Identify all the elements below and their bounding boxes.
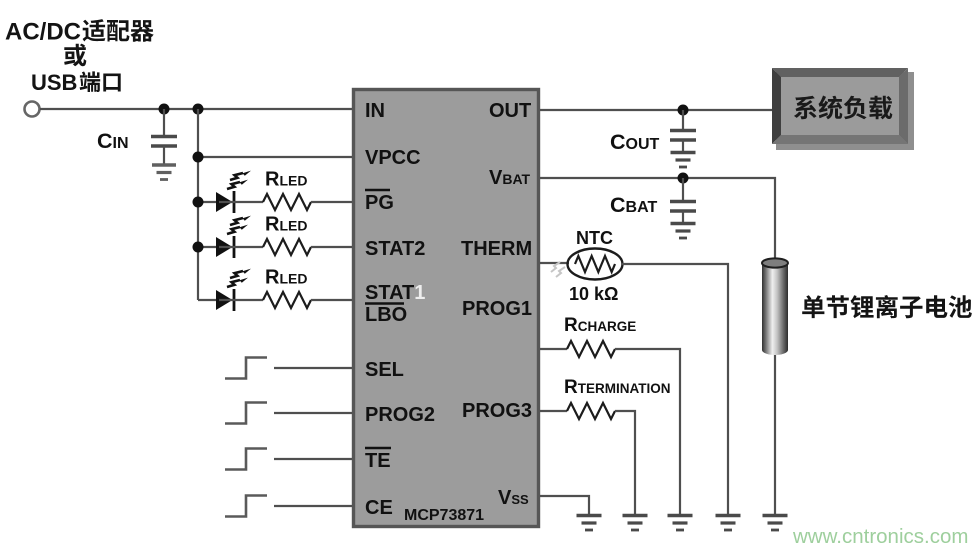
faint artifact arrows near NTC: [551, 262, 565, 277]
wire: PG LED branch: [198, 201, 216, 203]
ground (CBAT): [671, 224, 696, 239]
junction: COUT tap: [678, 105, 689, 116]
svg-text:www.cntronics.com: www.cntronics.com: [792, 525, 968, 548]
junction: VPCC: [193, 152, 204, 163]
resistor RTERMINATION: [567, 403, 615, 419]
svg-text:RLED: RLED: [265, 214, 307, 236]
svg-text:STAT1: STAT1: [365, 282, 425, 304]
wire: VBAT to battery: [540, 178, 775, 259]
junction: CBAT tap: [678, 173, 689, 184]
pin label LBO (active low): [365, 304, 407, 327]
wire: VSS to ground: [540, 496, 589, 514]
thermistor NTC zigzag: [575, 256, 615, 272]
signal step input (CE): [225, 496, 267, 517]
junction: LED bus tap: [193, 104, 204, 115]
ground (battery): [763, 516, 788, 531]
wire: PROG3 to RTERMINATION: [540, 410, 567, 412]
svg-text:LBO: LBO: [365, 304, 407, 326]
resistor RLED (STAT1): [263, 292, 311, 308]
svg-text:VBAT: VBAT: [489, 167, 531, 189]
svg-text:STAT2: STAT2: [365, 238, 425, 260]
signal step input (SEL): [225, 358, 267, 379]
svg-text:USB: USB: [31, 70, 77, 95]
label: or (或): [64, 44, 86, 67]
label: AC/DC adapter (AC/DC适配器): [5, 19, 154, 46]
svg-text:RLED: RLED: [265, 169, 307, 191]
ground (RCHARGE): [668, 516, 693, 531]
svg-text:PROG2: PROG2: [365, 404, 435, 426]
ground (CIN): [152, 165, 176, 180]
wire: input to IN pin: [40, 108, 352, 110]
system load block (系统负载): [772, 68, 914, 150]
signal step input (TE): [225, 449, 267, 470]
label: USB port (USB端口): [31, 70, 121, 95]
wire: RLED to STAT1 pin: [311, 299, 352, 301]
wire: LED D3 to RLED: [219, 299, 263, 301]
wire: STAT2 LED branch: [198, 246, 216, 248]
capacitor COUT: [670, 110, 696, 151]
svg-text:PG: PG: [365, 192, 394, 214]
pin label TE (active low): [365, 448, 391, 472]
ground (RTERMINATION): [623, 516, 648, 531]
svg-text:THERM: THERM: [461, 238, 532, 260]
svg-text:TE: TE: [365, 450, 391, 472]
op IC U1 MCP73871 body: [354, 90, 539, 527]
wire: OUT to system load: [540, 109, 773, 111]
ground (NTC): [716, 516, 741, 531]
resistor RLED (PG): [263, 194, 311, 210]
wire: RLED to STAT2 pin: [311, 246, 352, 248]
junction: PG branch: [193, 197, 204, 208]
pin label PG (active low): [365, 190, 394, 214]
svg-text:OUT: OUT: [489, 100, 531, 122]
svg-text:PROG3: PROG3: [462, 400, 532, 422]
capacitor CIN: [151, 109, 177, 164]
LED D3: [216, 290, 233, 310]
svg-text:RLED: RLED: [265, 267, 307, 289]
input terminal: [25, 102, 40, 117]
wire: LED D1 to RLED: [219, 201, 263, 203]
wire: STAT1 LED branch: [198, 299, 216, 301]
svg-text:RTERMINATION: RTERMINATION: [564, 377, 670, 398]
wire: NTC to ground: [622, 264, 728, 514]
capacitor CBAT: [670, 178, 696, 222]
LED D2: [216, 237, 233, 257]
svg-text:CE: CE: [365, 497, 393, 519]
signal step input (PROG2): [225, 403, 267, 424]
wire: RTERMINATION to ground: [615, 411, 635, 514]
junction: STAT2 branch: [193, 242, 204, 253]
svg-text:SEL: SEL: [365, 359, 404, 381]
svg-text:NTC: NTC: [576, 228, 613, 248]
wire: step to CE pin: [274, 505, 352, 507]
svg-text:AC/DC: AC/DC: [5, 19, 81, 46]
svg-text:RCHARGE: RCHARGE: [564, 315, 636, 336]
svg-text:10 kΩ: 10 kΩ: [569, 284, 618, 304]
junction: CIN tap: [159, 104, 170, 115]
wire: VPCC pin: [198, 156, 352, 158]
label single-cell li-ion battery (单节锂离子电池): [802, 295, 972, 318]
svg-text:VPCC: VPCC: [365, 147, 421, 169]
svg-text:IN: IN: [365, 100, 385, 122]
thermistor NTC body: [568, 249, 623, 280]
ground (COUT): [671, 153, 696, 168]
ground (VSS): [577, 516, 602, 531]
resistor RCHARGE: [567, 341, 615, 357]
wire: step to SEL pin: [274, 367, 352, 369]
wire: THERM to NTC: [540, 262, 569, 264]
svg-text:MCP73871: MCP73871: [404, 507, 484, 524]
wire: battery to ground: [774, 355, 776, 514]
wire: PROG1 to RCHARGE: [540, 348, 567, 350]
LED D1: [216, 192, 233, 212]
resistor RLED (STAT2): [263, 239, 311, 255]
wire: step to PROG2 pin: [274, 412, 352, 414]
wire: step to TE pin: [274, 458, 352, 460]
wire: LED D2 to RLED: [219, 246, 263, 248]
svg-text:PROG1: PROG1: [462, 298, 532, 320]
wire: RCHARGE to ground: [615, 349, 680, 514]
wire: RLED to PG pin: [311, 201, 352, 203]
wire: LED/VPCC bus vertical: [197, 109, 199, 300]
